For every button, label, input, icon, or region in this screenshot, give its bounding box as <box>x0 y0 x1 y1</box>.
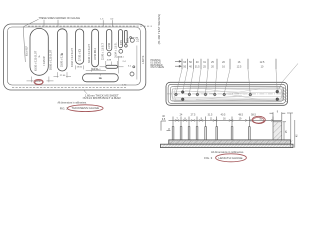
svg-text:(IS 460 TEST SIEVES): (IS 460 TEST SIEVES) <box>157 14 161 45</box>
svg-text:G: G <box>99 76 101 80</box>
svg-text:FIG. 2: FIG. 2 <box>60 106 68 110</box>
svg-text:All dimensions in millimetres.: All dimensions in millimetres. <box>58 100 87 104</box>
svg-text:19.50: 19.50 <box>77 67 83 69</box>
svg-text:105.16±1: 105.16±1 <box>92 69 102 71</box>
svg-text:48.5: 48.5 <box>238 114 243 117</box>
svg-text:30.48 ± 0.2 SLOT: 30.48 ± 0.2 SLOT <box>88 44 91 63</box>
svg-text:40.5: 40.5 <box>221 114 226 117</box>
svg-text:ON IS SIEVE: ON IS SIEVE <box>151 67 165 69</box>
svg-text:9.45: 9.45 <box>120 40 123 45</box>
svg-text:1.60 TK: 1.60 TK <box>142 55 145 64</box>
svg-text:16.54 ± .15 SL: 16.54 ± .15 SL <box>114 42 117 58</box>
svg-text:FIG. 3: FIG. 3 <box>204 156 212 160</box>
svg-text:12.5: 12.5 <box>260 61 265 64</box>
svg-text:D: D <box>94 50 96 54</box>
svg-text:40.64 ± 0.2 SLOT: 40.64 ± 0.2 SLOT <box>71 48 74 67</box>
svg-text:All dimensions in millimetres.: All dimensions in millimetres. <box>211 150 244 154</box>
svg-text:± 0.25 W: ± 0.25 W <box>43 56 46 66</box>
svg-text:C: C <box>79 49 81 53</box>
svg-text:A: A <box>38 55 40 59</box>
svg-text:IS:513 MSTB BOLT & BAR: IS:513 MSTB BOLT & BAR <box>83 96 121 100</box>
svg-text:B: B <box>61 52 63 56</box>
svg-text:LENGTH GAUGE: LENGTH GAUGE <box>219 156 243 160</box>
svg-text:27.00: 27.00 <box>60 75 66 77</box>
svg-text:THESE SIDES MARKED ON GAUGE: THESE SIDES MARKED ON GAUGE <box>39 16 81 20</box>
svg-text:27.5: 27.5 <box>191 114 196 117</box>
svg-text:31.5: 31.5 <box>208 114 213 117</box>
svg-text:63.5 REF: 63.5 REF <box>25 45 28 56</box>
svg-text:13.50: 13.50 <box>108 42 111 49</box>
svg-text:50.80 ± 0.25 SLOT: 50.80 ± 0.25 SLOT <box>49 49 52 70</box>
svg-text:12.5: 12.5 <box>237 66 242 69</box>
svg-text:33.90: 33.90 <box>35 81 41 83</box>
svg-text:31.5: 31.5 <box>195 66 200 69</box>
svg-text:22.90 ± .15 SLT: 22.90 ± .15 SLT <box>101 43 104 60</box>
svg-text:Ø1.5: Ø1.5 <box>117 57 123 59</box>
svg-text:63.50 ± 0.25 SLOT: 63.50 ± 0.25 SLOT <box>35 50 38 71</box>
svg-text:THICKNESS GAUGE: THICKNESS GAUGE <box>72 106 100 110</box>
svg-text:6.75: 6.75 <box>127 38 130 43</box>
